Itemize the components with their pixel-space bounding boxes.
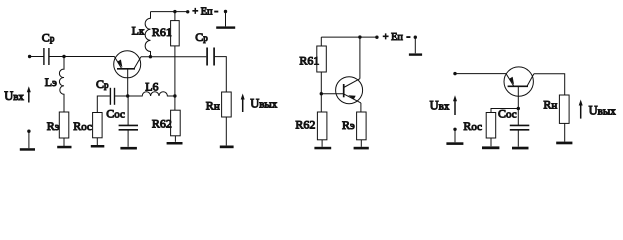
node divider/Lб junction (173, 94, 176, 97)
node base junction (126, 94, 129, 97)
wire Сос to ground right (517, 131, 519, 147)
svg-text:R61: R61 (152, 25, 172, 39)
transistor VT3 (right, pnp) (504, 67, 533, 96)
ground (under R62 mid) (314, 147, 331, 150)
ground (under Rэ) (57, 146, 71, 149)
wire collector to Rн corner right (534, 74, 565, 95)
wire Rн to ground right (564, 123, 566, 141)
svg-text:-: - (214, 3, 218, 17)
ground (under Rэ mid) (354, 147, 369, 150)
capacitor C4 (Сос) (127, 96, 129, 125)
svg-text:Uвх: Uвх (4, 89, 24, 103)
wire node to R62 (174, 96, 176, 110)
svg-text:L6: L6 (145, 79, 158, 93)
wire R61 bottom lead crossing rail down to divider node (174, 46, 176, 96)
ground (right input) (446, 142, 463, 145)
wire collector rail (141, 56, 206, 58)
wire Cp2 to Rн corner (215, 57, 227, 92)
wire R61 to divider node (320, 72, 322, 112)
wire input to emitter right (455, 73, 506, 75)
node rail terminal mid (375, 36, 378, 39)
node divider mid (320, 92, 323, 95)
emitter VT2 with arrow (344, 94, 361, 103)
ground (Еп mid) (409, 53, 422, 55)
resistor R1 (R61) (171, 21, 180, 46)
node R61 top (173, 10, 176, 13)
svg-text:Rн: Rн (206, 98, 220, 112)
ground (under Сос) (120, 147, 136, 150)
svg-text:+ Еп: + Еп (192, 6, 213, 17)
resistor R-feedback (Roc) (93, 113, 103, 138)
wire Cp3 to Roc (97, 96, 110, 113)
emitter VT1 with arrow (114, 56, 122, 68)
wire to input ground (28, 131, 30, 148)
base lead VT3 (517, 86, 519, 108)
resistor R7 (Roc right) (486, 113, 496, 139)
svg-text:Rос: Rос (73, 119, 92, 133)
svg-text:R62: R62 (152, 117, 172, 131)
ground (Еп left) (216, 26, 235, 28)
transistor VT1 (left, pnp) (114, 51, 141, 78)
resistor R3 (R61 mid) (317, 46, 327, 72)
wire to ground right input (454, 129, 456, 142)
collector VT3 (527, 74, 534, 87)
wire Roc to ground (96, 138, 98, 145)
base bar VT2 (343, 84, 345, 97)
node Еп minus terminal mid (414, 36, 417, 39)
svg-text:-: - (406, 29, 410, 43)
wire rail corner down to R61 (320, 37, 322, 46)
base lead VT1 (127, 69, 129, 96)
capacitor C1 (Cp input) (44, 48, 49, 65)
wire collector to rail (359, 37, 361, 79)
svg-text:R61: R61 (299, 54, 319, 68)
ground (under Roc) (91, 145, 105, 148)
ground (under Rн right) (556, 142, 572, 145)
svg-text:Uвых: Uвых (589, 103, 617, 117)
voltage arrow Uвх (27, 86, 31, 102)
collector VT2 (344, 79, 360, 88)
wire Rэ to ground (63, 138, 65, 146)
svg-text:Rэ: Rэ (47, 119, 60, 133)
wire emitter down to Rэ (360, 103, 362, 112)
wire R62 to ground (174, 136, 176, 142)
svg-text:Uвых: Uвых (250, 96, 278, 110)
resistor R2 (R62) (171, 110, 181, 136)
svg-text:+ Еп: + Еп (383, 32, 404, 43)
ground (input) (20, 148, 35, 151)
wire input to Cp1 (30, 56, 44, 58)
wire base node to Cp3 (115, 95, 128, 97)
voltage arrow Uвых left (241, 94, 245, 113)
wire Еп terminal to ground (225, 12, 227, 27)
voltage arrow Uвых right (579, 100, 583, 119)
node A (emitter/Lэ junction) (62, 55, 65, 58)
node Еп minus terminal (224, 10, 227, 13)
wire R61 top lead (174, 12, 176, 21)
inductor L1 (Lэ) (59, 57, 64, 113)
ground (under Rн) (220, 146, 234, 149)
wire base node to Roc right (491, 109, 518, 113)
node collector on rail (358, 35, 361, 38)
wire Rн to ground (225, 117, 227, 145)
voltage arrow Uвх right (453, 95, 457, 115)
capacitor C3 (Cp base) (110, 88, 114, 105)
wire Еп terminal to ground mid (414, 37, 416, 53)
wire base mid (321, 93, 343, 95)
svg-text:Cр: Cр (195, 30, 208, 44)
node rail end terminal (186, 10, 189, 13)
node input terminal right (453, 72, 456, 75)
wire Cp1 to emitter (50, 56, 115, 58)
node input bottom right (453, 128, 456, 131)
svg-text:Lк: Lк (132, 24, 145, 38)
svg-text:Rос: Rос (463, 119, 482, 133)
wire R62 to ground (321, 140, 323, 147)
svg-text:Сос: Сос (106, 107, 125, 121)
base bar VT3 (508, 85, 528, 87)
svg-text:Сос: Сос (498, 106, 517, 120)
svg-text:Rн: Rн (543, 97, 557, 111)
resistor R-load (Rн) (222, 92, 232, 117)
wire top rail (151, 11, 188, 13)
emitter VT3 with arrow (506, 74, 514, 86)
resistor R-emitter (Rэ) (59, 112, 69, 138)
resistor R5 (Rэ mid) (357, 112, 367, 140)
wire Roc to ground right (490, 138, 492, 146)
capacitor C5 (Сос right) (517, 109, 519, 126)
node input terminal top (28, 55, 31, 58)
transistor VT2 (middle) (336, 77, 363, 104)
ground (under R62) (167, 142, 183, 145)
node collector/Lк junction (149, 55, 152, 58)
resistor R6 (Rн right) (559, 95, 569, 123)
svg-text:Uвх: Uвх (430, 99, 450, 113)
wire Сос to ground (127, 131, 129, 147)
svg-text:R62: R62 (295, 117, 315, 131)
node input terminal bottom (27, 130, 30, 133)
svg-text:Cр: Cр (42, 31, 55, 45)
base bar VT1 (117, 68, 135, 70)
resistor R4 (R62 mid) (317, 112, 327, 140)
inductor L3 (Lб) (128, 92, 175, 96)
ground (under Roc right) (482, 146, 499, 149)
inductor L2 (Lк) (145, 12, 150, 57)
svg-text:Rэ: Rэ (342, 118, 355, 132)
collector VT1 (134, 57, 141, 69)
wire top rail mid (321, 36, 377, 38)
svg-text:Lэ: Lэ (45, 75, 57, 89)
node base junction right (517, 107, 520, 110)
wire Rэ to ground (360, 140, 362, 147)
svg-text:Cр: Cр (96, 77, 109, 91)
ground (under Сос right) (512, 147, 529, 150)
capacitor C2 (Cp output) (207, 48, 214, 66)
